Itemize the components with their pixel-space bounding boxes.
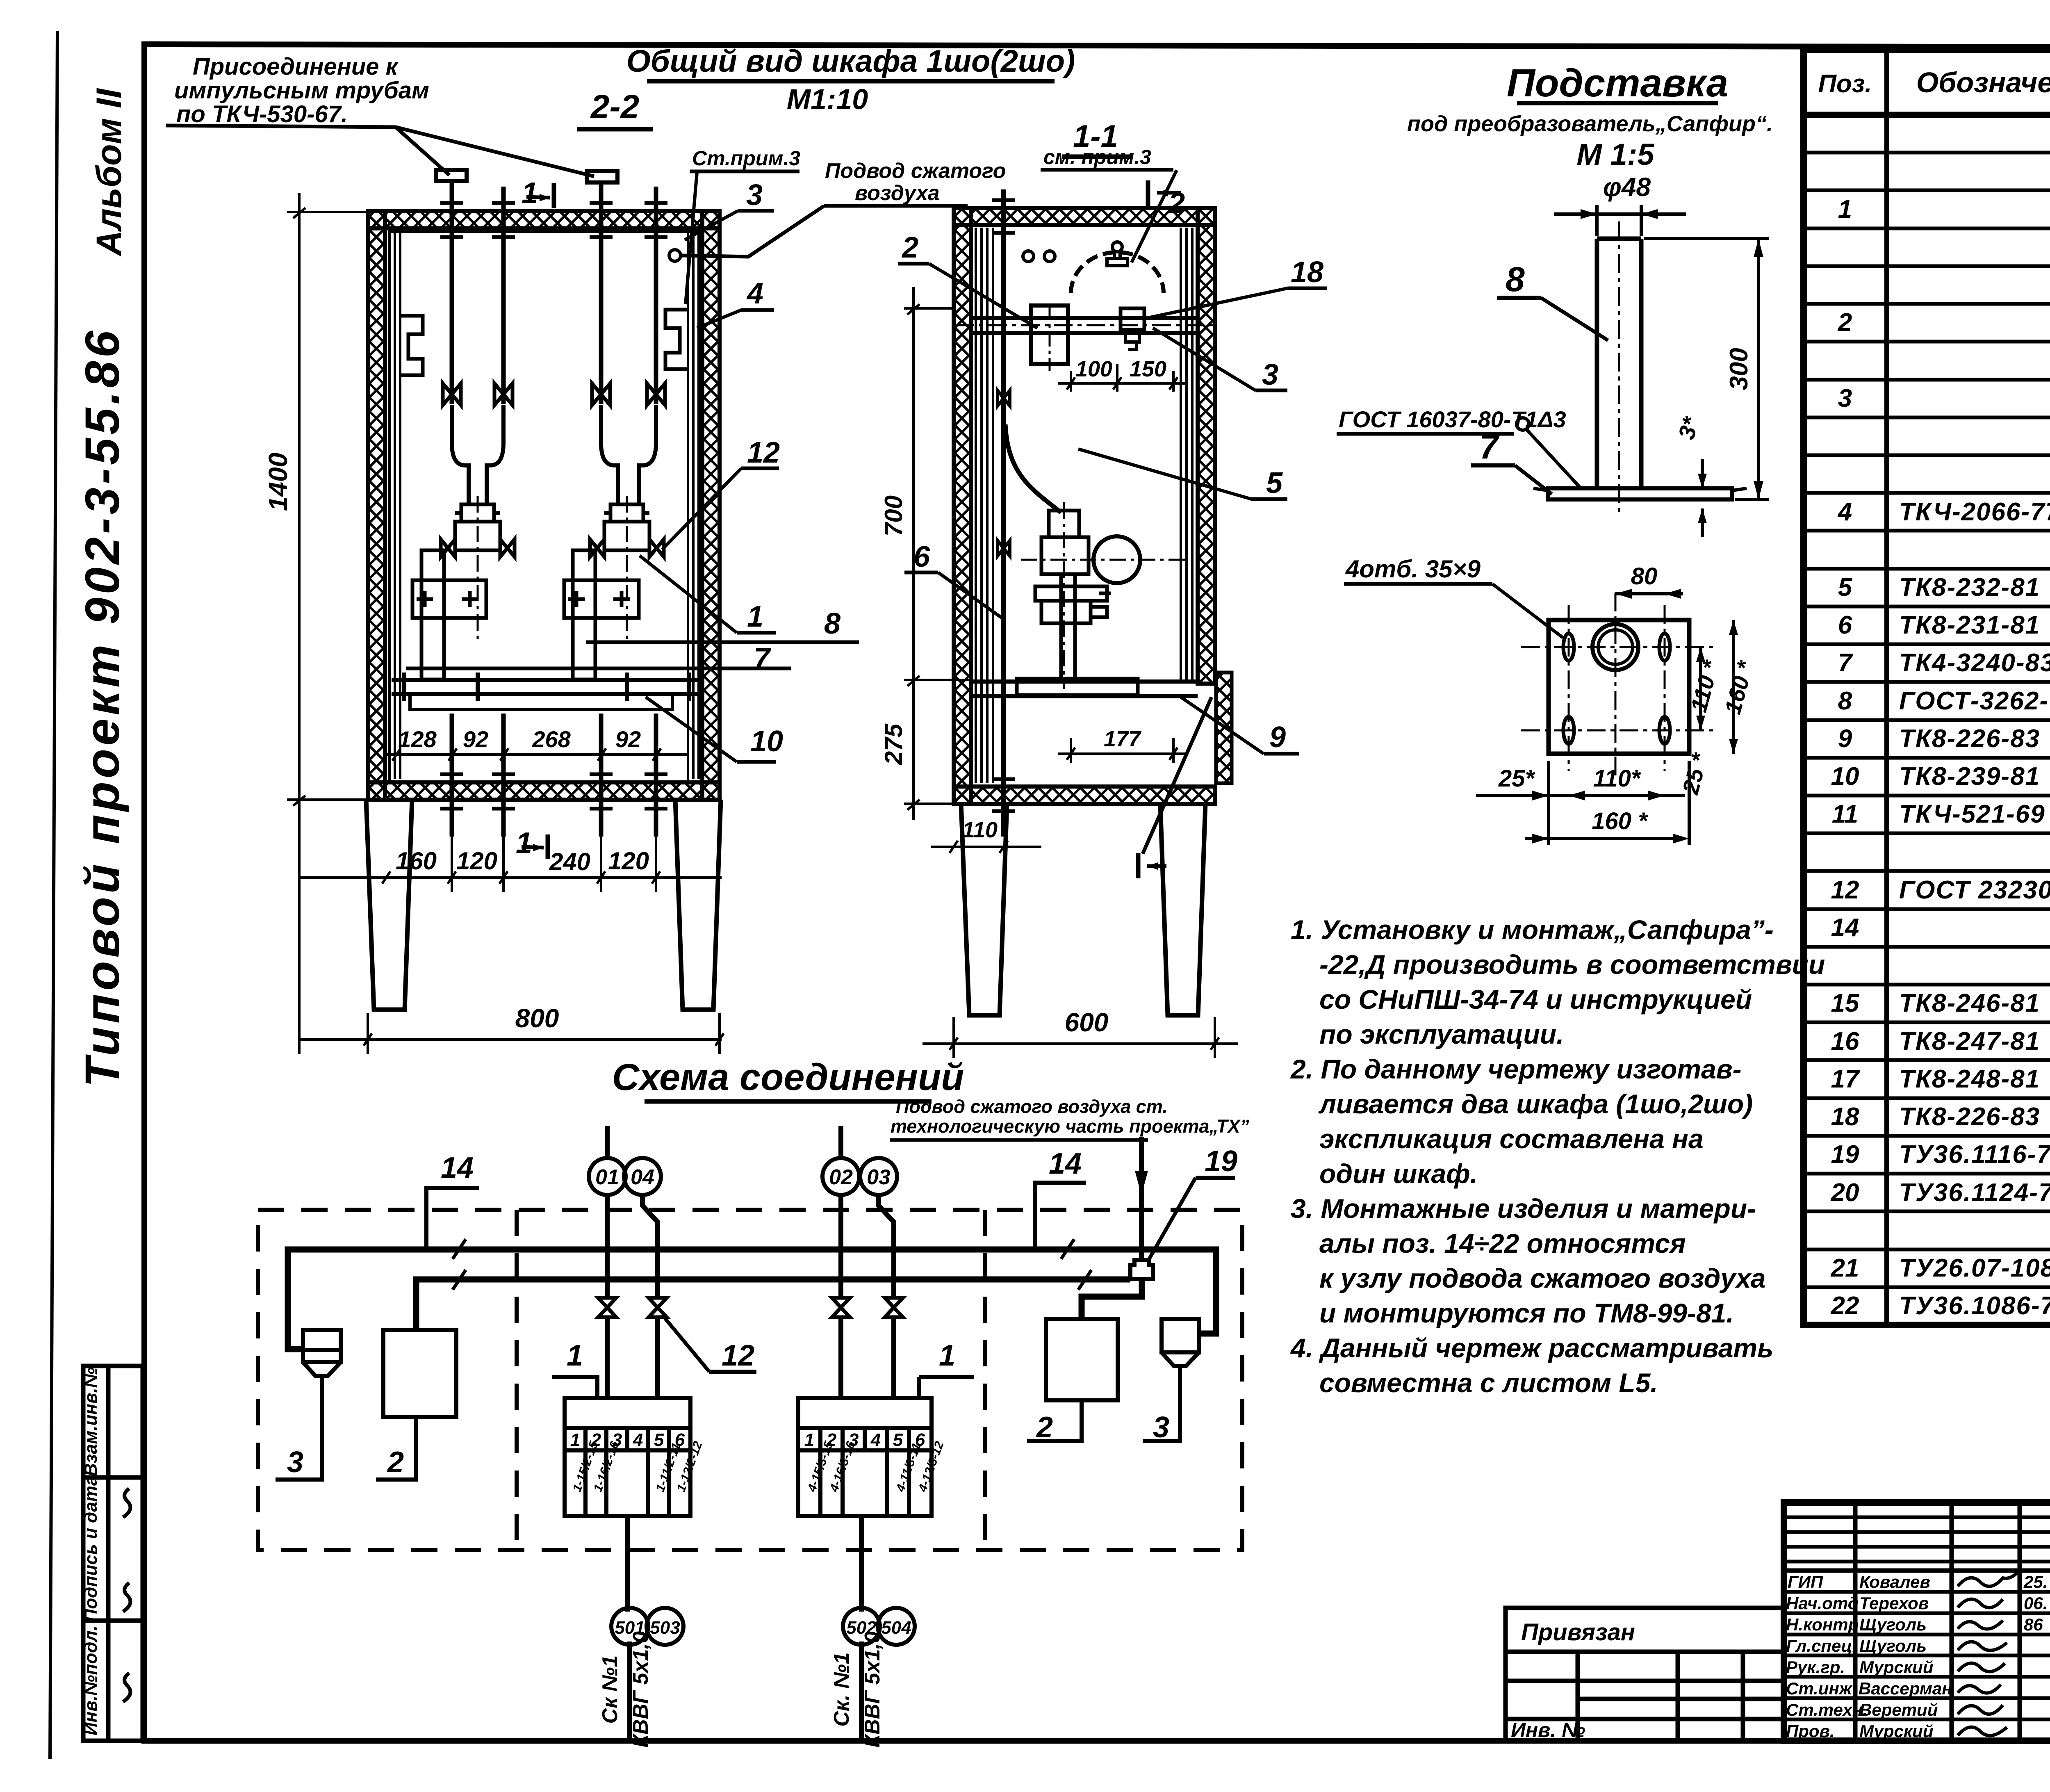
svg-text:21: 21	[1831, 1254, 1859, 1282]
svg-text:ливается два шкафа (1шо,2шо): ливается два шкафа (1шо,2шо)	[1318, 1089, 1753, 1119]
svg-text:9: 9	[1838, 725, 1852, 753]
svg-text:воздуха: воздуха	[855, 181, 940, 205]
svg-text:Общий вид шкафа 1шо(2шо): Общий вид шкафа 1шо(2шо)	[626, 44, 1075, 79]
svg-text:Альбом II: Альбом II	[89, 88, 129, 257]
svg-text:700: 700	[880, 495, 907, 536]
dims 700 / 275 vertical	[880, 287, 971, 820]
stand titles	[1407, 61, 1773, 202]
dia 48 dim	[1554, 205, 1686, 236]
dim 1400 vertical	[263, 193, 368, 1054]
svg-text:3: 3	[746, 179, 763, 212]
leader underline + fan to pipe caps	[166, 125, 594, 176]
svg-text:80: 80	[1631, 563, 1658, 590]
svg-text:2-2: 2-2	[590, 88, 640, 125]
svg-text:9: 9	[1269, 721, 1286, 754]
svg-text:Н.контр: Н.контр	[1786, 1615, 1859, 1634]
svg-text:Подпись и дата: Подпись и дата	[81, 1476, 101, 1622]
pipe cap flange 1	[436, 170, 467, 181]
svg-text:Ст.техн.: Ст.техн.	[1786, 1700, 1868, 1719]
leg right	[675, 800, 721, 1010]
svg-text:Подставка: Подставка	[1507, 61, 1728, 105]
svg-text:ГИП: ГИП	[1788, 1572, 1823, 1591]
cabinet walls (hatched)	[368, 211, 720, 800]
svg-text:16: 16	[1831, 1027, 1859, 1056]
svg-text:03: 03	[867, 1165, 891, 1189]
TITLE-BLOCK	[1506, 1502, 2050, 1776]
svg-text:4: 4	[1837, 498, 1852, 526]
svg-text:ТКЧ-521-69: ТКЧ-521-69	[1899, 800, 2045, 828]
svg-text:Мурский: Мурский	[1859, 1721, 1933, 1741]
svg-text:Поз.: Поз.	[1818, 70, 1872, 98]
svg-text:Обозначение: Обозначение	[1916, 66, 2050, 98]
left stamp column	[83, 1366, 143, 1741]
svg-text:19: 19	[1205, 1145, 1237, 1178]
svg-text:Ск №1: Ск №1	[598, 1655, 622, 1724]
bolt slots	[1563, 634, 1670, 744]
lower bus	[416, 1279, 1130, 1330]
svg-text:4отб. 35×9: 4отб. 35×9	[1345, 555, 1481, 583]
svg-text:1: 1	[567, 1339, 583, 1372]
svg-text:совместна с листом L5.: совместна с листом L5.	[1319, 1368, 1658, 1398]
svg-text:и монтируются по ТМ8-99-81.: и монтируются по ТМ8-99-81.	[1319, 1298, 1734, 1328]
svg-text:Ст.инж: Ст.инж	[1786, 1679, 1853, 1698]
svg-text:со СНиПШ-34-74 и инструкцией: со СНиПШ-34-74 и инструкцией	[1319, 984, 1752, 1015]
impulse tube curves to instrument 2	[601, 405, 656, 504]
leg left	[961, 804, 1007, 1015]
svg-text:12: 12	[1831, 876, 1859, 904]
upper bus	[288, 1249, 1216, 1349]
svg-text:20: 20	[1831, 1179, 1859, 1207]
bolt plate	[1549, 620, 1689, 754]
svg-text:177: 177	[1104, 727, 1142, 751]
shelf	[392, 673, 701, 709]
privyazan sub-table	[1506, 1608, 1784, 1741]
section mark 1 (top)	[522, 177, 554, 210]
sheet trim line	[50, 31, 57, 1759]
air inlet circle + leader	[669, 250, 681, 261]
inner lining	[976, 228, 1192, 783]
svg-text:ТКЧ-2066-77: ТКЧ-2066-77	[1899, 498, 2050, 526]
svg-text:ГОСТ 23230-78: ГОСТ 23230-78	[1899, 876, 2050, 904]
svg-text:800: 800	[515, 1003, 559, 1033]
right dims 110* 160*	[1677, 620, 1758, 797]
wall bracket item right	[665, 310, 688, 369]
pipes through bottom wall	[452, 714, 656, 837]
svg-text:Типовой проект 902-3-55.86: Типовой проект 902-3-55.86	[75, 328, 130, 1088]
connector item 19	[1130, 1260, 1153, 1279]
svg-text:Присоединение к: Присоединение к	[193, 53, 399, 80]
svg-text:Ковалев: Ковалев	[1859, 1572, 1930, 1591]
group A impulse lines	[605, 1126, 610, 1158]
label Ст.прим.3	[692, 147, 800, 170]
terminal box B	[798, 1398, 932, 1516]
svg-text:Привязан: Привязан	[1521, 1619, 1635, 1646]
svg-text:100: 100	[1075, 357, 1112, 381]
dim 80	[1615, 563, 1683, 599]
left filter vessel (3)	[303, 1330, 341, 1390]
svg-text:1: 1	[747, 600, 763, 633]
svg-text:2: 2	[901, 231, 918, 264]
svg-text:120: 120	[456, 847, 497, 875]
svg-text:Веретий: Веретий	[1859, 1700, 1938, 1719]
dims 100 150	[1058, 357, 1187, 392]
svg-text:ГОСТ-3262-75: ГОСТ-3262-75	[1899, 687, 2050, 715]
label Подвод сжатого воздуха	[825, 159, 1006, 205]
inner lining	[389, 230, 699, 781]
stamp texts	[1786, 1572, 2048, 1741]
line from connector to right box	[1082, 1279, 1142, 1319]
upper shelf	[971, 316, 1198, 320]
svg-text:4: 4	[870, 1430, 881, 1450]
svg-text:503: 503	[650, 1618, 680, 1638]
section mark bottom	[1138, 853, 1166, 878]
svg-text:Подвод сжатого воздуха ст.: Подвод сжатого воздуха ст.	[896, 1096, 1168, 1117]
cabinet walls (hatched)	[954, 208, 1215, 804]
svg-text:ТК8-232-81: ТК8-232-81	[1899, 573, 2040, 602]
svg-text:600: 600	[1065, 1008, 1109, 1037]
svg-text:экспликация составлена на: экспликация составлена на	[1319, 1124, 1704, 1154]
valves group B	[832, 1298, 850, 1317]
wall bracket item left	[400, 316, 423, 375]
svg-text:7: 7	[1838, 649, 1853, 677]
svg-text:1: 1	[939, 1339, 955, 1372]
svg-text:3: 3	[1262, 358, 1278, 391]
section mark 1 (bottom)	[516, 827, 548, 860]
centerlines	[1521, 593, 1716, 777]
svg-text:14: 14	[441, 1151, 474, 1184]
svg-text:под преобразователь„Сапфир“.: под преобразователь„Сапфир“.	[1407, 112, 1773, 136]
impulse tube curves to instrument 1	[452, 405, 503, 504]
svg-text:128: 128	[398, 726, 437, 752]
svg-text:алы поз. 14÷22 относятся: алы поз. 14÷22 относятся	[1319, 1228, 1686, 1259]
dim 600	[922, 1008, 1238, 1058]
svg-text:240: 240	[549, 848, 590, 875]
wire to 502/504	[859, 1516, 864, 1612]
svg-text:14: 14	[1049, 1147, 1082, 1180]
svg-text:4: 4	[633, 1430, 643, 1450]
svg-text:2. По данному чертежу изготав-: 2. По данному чертежу изготав-	[1290, 1054, 1742, 1084]
CABINET-1-1	[626, 44, 1327, 1058]
PARTS-TABLE	[1804, 50, 2050, 1325]
svg-text:5: 5	[1838, 573, 1853, 602]
svg-text:Мурский: Мурский	[1859, 1657, 1933, 1677]
left regulator box (2)	[383, 1330, 456, 1417]
svg-text:ТК8-239-81: ТК8-239-81	[1899, 762, 2040, 791]
valve on pipe 4	[647, 383, 665, 405]
svg-text:1: 1	[522, 177, 538, 210]
svg-text:6: 6	[913, 540, 930, 573]
valves group A	[598, 1298, 616, 1317]
svg-text:160 *: 160 *	[1592, 808, 1648, 834]
bottom dims 25* 110* 160*	[1476, 761, 1689, 845]
svg-text:110*: 110*	[1593, 765, 1641, 792]
svg-text:1: 1	[1838, 195, 1852, 223]
svg-text:02: 02	[829, 1165, 853, 1189]
svg-text:Подвод сжатого: Подвод сжатого	[825, 159, 1006, 183]
svg-text:по ТКЧ-530-67.: по ТКЧ-530-67.	[176, 101, 348, 128]
svg-text:ТК8-226-83: ТК8-226-83	[1899, 1103, 2040, 1131]
svg-text:Инв.№подл.: Инв.№подл.	[81, 1626, 101, 1735]
svg-text:КВВГ 5х1,0: КВВГ 5х1,0	[629, 1631, 653, 1748]
stand pipe	[1597, 239, 1641, 488]
svg-text:1400: 1400	[263, 453, 293, 511]
pipe 1	[450, 181, 454, 404]
svg-text:160: 160	[396, 847, 437, 875]
svg-text:10: 10	[750, 725, 783, 758]
air supply pipe	[1001, 189, 1006, 837]
svg-text:275: 275	[880, 723, 907, 765]
signature squiggles in stamp column	[123, 1489, 130, 1702]
NOTES	[1290, 914, 1825, 1398]
circles 02 03	[822, 1158, 859, 1195]
svg-text:150: 150	[1130, 357, 1166, 381]
svg-text:импульсным трубам: импульсным трубам	[174, 77, 429, 104]
flexible tube	[1005, 424, 1061, 513]
svg-text:12: 12	[747, 436, 780, 469]
svg-text:Ск. №1: Ск. №1	[830, 1652, 854, 1726]
circles 01 04	[589, 1158, 626, 1195]
svg-text:см. прим.3: см. прим.3	[1043, 146, 1151, 169]
svg-text:8: 8	[1506, 260, 1525, 299]
right filter vessel (3)	[1162, 1319, 1199, 1380]
svg-text:ТК8-248-81: ТК8-248-81	[1899, 1065, 2040, 1093]
svg-text:12: 12	[722, 1339, 754, 1372]
svg-text:5: 5	[893, 1430, 903, 1450]
group B impulse lines	[838, 1126, 843, 1158]
dim 300	[1644, 239, 1769, 499]
dims 160 120 240 120	[299, 837, 722, 892]
svg-text:1: 1	[516, 827, 532, 860]
svg-text:ТУ26.07-1085-74: ТУ26.07-1085-74	[1899, 1254, 2050, 1282]
small holes	[1023, 251, 1034, 262]
leg right	[1160, 804, 1205, 1015]
pipe flanges at top wall	[440, 203, 667, 237]
air supply note	[891, 1096, 1249, 1137]
svg-text:18: 18	[1831, 1103, 1859, 1131]
pipe 3	[599, 182, 604, 404]
dim 800	[299, 1003, 724, 1054]
svg-text:Взам.инв.№: Взам.инв.№	[81, 1367, 101, 1476]
door segment right	[1216, 673, 1232, 783]
svg-text:300: 300	[1725, 348, 1753, 390]
svg-text:ТК8-247-81: ТК8-247-81	[1899, 1027, 2040, 1056]
svg-text:Инв. №: Инв. №	[1511, 1719, 1585, 1742]
note text: Присоединение к импульсным трубам	[174, 53, 429, 128]
svg-text:Нач.отд: Нач.отд	[1786, 1594, 1859, 1613]
wire to 501/503	[625, 1516, 630, 1612]
right regulator box (2)	[1046, 1319, 1118, 1400]
pipe 2	[501, 187, 506, 404]
svg-text:7: 7	[1479, 427, 1500, 466]
svg-text:17: 17	[1831, 1065, 1860, 1093]
svg-text:22: 22	[1831, 1292, 1859, 1320]
svg-text:Рук.гр.: Рук.гр.	[1786, 1657, 1845, 1677]
svg-text:ТУ36.1116-77: ТУ36.1116-77	[1899, 1140, 2050, 1169]
transmitter assembly 2 (Sapphire-22DD)	[564, 496, 664, 679]
valve on air pipe (lower)	[998, 540, 1010, 556]
dashed enclosure	[258, 1210, 1242, 1550]
svg-text:504: 504	[881, 1618, 911, 1638]
svg-text:Гл.спец.: Гл.спец.	[1786, 1636, 1857, 1655]
svg-text:Ст.прим.3: Ст.прим.3	[692, 147, 800, 170]
svg-text:1: 1	[804, 1430, 814, 1450]
SCHEMA	[258, 1056, 1249, 1748]
air supply drop line	[1139, 1137, 1144, 1260]
bus break marks	[453, 1239, 1091, 1290]
main stamp grid	[1784, 1502, 2050, 1741]
svg-text:4. Данный чертеж рассматривать: 4. Данный чертеж рассматривать	[1290, 1333, 1773, 1363]
svg-text:8: 8	[824, 607, 840, 640]
pipe cap flange 2	[587, 171, 617, 182]
svg-text:ТК8-246-81: ТК8-246-81	[1899, 989, 2040, 1017]
svg-text:ТК8-231-81: ТК8-231-81	[1899, 611, 2040, 639]
signatures	[1958, 1571, 2019, 1735]
pipe hole circles	[1592, 624, 1638, 670]
svg-text:Схема соединений: Схема соединений	[612, 1056, 964, 1098]
svg-text:ТУ36.1124-74: ТУ36.1124-74	[1899, 1179, 2050, 1207]
svg-text:3: 3	[1838, 384, 1852, 413]
base plate	[1548, 488, 1732, 499]
svg-text:25*: 25*	[1498, 765, 1535, 792]
terminal box A	[565, 1398, 690, 1516]
valve on pipe 3	[592, 383, 610, 405]
svg-text:6: 6	[1838, 611, 1852, 639]
svg-text:к узлу подвода сжатого воздуха: к узлу подвода сжатого воздуха	[1319, 1263, 1766, 1293]
svg-text:Щуголь: Щуголь	[1859, 1615, 1927, 1634]
regulator box	[1031, 306, 1068, 364]
svg-text:Пров.: Пров.	[1786, 1721, 1835, 1741]
lower shelf	[971, 679, 1198, 684]
svg-text:04: 04	[631, 1165, 654, 1189]
svg-text:5: 5	[1266, 467, 1283, 499]
svg-text:06.: 06.	[2024, 1594, 2048, 1613]
manifold arc	[1071, 252, 1164, 293]
LEFT-MARGIN	[75, 88, 144, 1741]
bolt item (18)	[1121, 308, 1144, 330]
dim 110	[931, 818, 1041, 853]
svg-text:86: 86	[2024, 1615, 2043, 1634]
svg-text:ТК8-226-83: ТК8-226-83	[1899, 725, 2040, 753]
pipe flanges at bottom wall	[440, 774, 667, 809]
pipe 4	[654, 187, 658, 404]
svg-text:М1:10: М1:10	[787, 83, 868, 115]
dim 3* plate thickness	[1673, 414, 1707, 537]
leg left	[366, 800, 412, 1010]
svg-text:3: 3	[287, 1446, 303, 1479]
CABINET-2-2	[166, 53, 859, 1054]
valve on pipe 1	[443, 383, 461, 405]
svg-text:технологическую часть проекта„: технологическую часть проекта„ТХ”	[891, 1116, 1249, 1137]
svg-text:ГОСТ 16037-80-Т1Δ3: ГОСТ 16037-80-Т1Δ3	[1339, 406, 1566, 432]
svg-text:КВВГ 5х1,0: КВВГ 5х1,0	[861, 1631, 884, 1748]
svg-text:92: 92	[463, 726, 488, 752]
svg-text:25.: 25.	[2023, 1572, 2048, 1591]
valve on air pipe (upper)	[998, 390, 1010, 406]
svg-text:11: 11	[1832, 800, 1858, 828]
section mark 2 (top)	[1148, 180, 1185, 220]
svg-text:2: 2	[387, 1446, 404, 1479]
svg-text:19: 19	[1831, 1140, 1859, 1169]
transmitter side view	[1017, 502, 1189, 695]
svg-text:один шкаф.: один шкаф.	[1319, 1158, 1478, 1189]
svg-text:4: 4	[746, 277, 763, 310]
interior dims 128 92 268 92	[385, 726, 689, 761]
svg-text:1: 1	[570, 1430, 580, 1450]
svg-text:Вассерман: Вассерман	[1859, 1679, 1952, 1698]
svg-text:15: 15	[1831, 989, 1860, 1017]
svg-text:10: 10	[1831, 762, 1859, 791]
STAND	[1337, 61, 1773, 845]
svg-text:92: 92	[615, 726, 641, 752]
svg-text:8: 8	[1838, 687, 1852, 715]
transmitter assembly 1 (Sapphire-22DD)	[412, 496, 515, 679]
valve on pipe 2	[494, 383, 512, 405]
dim 177	[1058, 727, 1187, 763]
svg-text:ТУ36.1086-76: ТУ36.1086-76	[1899, 1292, 2050, 1320]
svg-text:120: 120	[608, 847, 649, 875]
svg-text:268: 268	[532, 726, 571, 752]
svg-text:1. Установку и монтаж„Сапфира”: 1. Установку и монтаж„Сапфира”-	[1291, 914, 1774, 945]
svg-text:14: 14	[1831, 914, 1859, 942]
svg-text:по эксплуатации.: по эксплуатации.	[1319, 1019, 1564, 1049]
svg-text:110: 110	[962, 818, 998, 842]
svg-text:2: 2	[1838, 308, 1852, 337]
svg-text:3. Монтажные изделия и матери-: 3. Монтажные изделия и матери-	[1291, 1193, 1756, 1224]
svg-text:01: 01	[595, 1165, 619, 1189]
svg-text:-22,Д производить в соответств: -22,Д производить в соответствии	[1319, 949, 1825, 980]
svg-text:ТК4-3240-83: ТК4-3240-83	[1899, 649, 2050, 677]
svg-text:М 1:5: М 1:5	[1576, 137, 1655, 171]
svg-text:5: 5	[654, 1430, 664, 1450]
svg-text:Щуголь: Щуголь	[1859, 1636, 1927, 1655]
svg-text:18: 18	[1291, 256, 1323, 289]
svg-text:φ48: φ48	[1603, 172, 1651, 202]
svg-text:Терехов: Терехов	[1859, 1594, 1929, 1613]
